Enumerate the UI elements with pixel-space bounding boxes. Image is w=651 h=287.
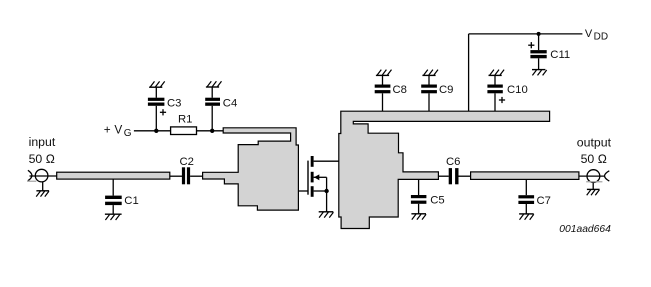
node output label [577, 136, 612, 166]
transistor Q1 drain lead [314, 160, 339, 162]
svg-text:C10: C10 [507, 84, 528, 96]
node VDD label [585, 28, 608, 42]
ground (C11) [532, 70, 547, 76]
node input label [29, 135, 56, 166]
capacitor C5 [411, 179, 445, 213]
svg-text:50 Ω: 50 Ω [581, 152, 608, 166]
svg-text:C3: C3 [167, 98, 181, 110]
svg-text:C6: C6 [446, 156, 460, 168]
svg-text:V: V [585, 28, 593, 40]
output connector J2 [579, 170, 609, 183]
wire VDD feed vertical [468, 34, 470, 111]
svg-text:C9: C9 [439, 84, 453, 96]
capacitor C6 [438, 156, 470, 184]
ground (C1) [105, 214, 122, 220]
ground (output connector) [587, 182, 600, 195]
svg-text:C11: C11 [550, 49, 570, 61]
wire VDD horizontal [469, 33, 583, 35]
ground (C5) [411, 214, 426, 220]
svg-text:+: + [104, 123, 111, 137]
node junction dot C4 [210, 129, 214, 133]
ground (C10, top) [489, 70, 505, 76]
capacitor C9 [421, 76, 453, 111]
ground (C4, top) [206, 81, 222, 87]
ground (source) [319, 212, 334, 218]
capacitor C11 (electrolytic) [528, 34, 570, 70]
svg-text:output: output [577, 136, 612, 150]
capacitor C1 [105, 179, 139, 214]
input matching microstrip network [203, 128, 299, 210]
capacitor C2 [170, 156, 203, 185]
node junction dot C3 [154, 129, 158, 133]
svg-text:G: G [124, 128, 132, 139]
input connector J1 [27, 169, 57, 182]
ground (C7) [519, 214, 534, 220]
svg-text:C8: C8 [393, 84, 407, 96]
wire VG to R1 [134, 130, 171, 132]
capacitor C10 (electrolytic) [487, 76, 527, 111]
ground (input connector) [36, 182, 49, 197]
svg-text:R1: R1 [178, 113, 192, 125]
svg-text:input: input [29, 135, 56, 149]
node +VG label [104, 123, 132, 140]
svg-text:C2: C2 [180, 156, 194, 168]
svg-text:50 Ω: 50 Ω [29, 152, 56, 166]
output matching microstrip network with VDD feed bar [339, 111, 550, 228]
svg-text:C4: C4 [223, 98, 237, 110]
capacitor C3 (electrolytic) [148, 88, 182, 131]
svg-text:C1: C1 [124, 195, 138, 207]
ground (C8, top) [376, 70, 392, 76]
ground (C3, top) [149, 81, 165, 87]
ground (C9, top) [422, 70, 438, 76]
wire source to ground [326, 191, 328, 212]
capacitor C4 [205, 87, 237, 130]
svg-text:C7: C7 [537, 195, 551, 207]
svg-text:001aad664: 001aad664 [559, 224, 611, 235]
transistor Q1 gate lead [298, 190, 308, 192]
transistor Q1 gate line [307, 161, 309, 195]
resistor R1 [171, 113, 197, 134]
node junction dot source [324, 189, 328, 193]
capacitor C8 [375, 76, 407, 111]
wire output microstrip line [471, 172, 579, 180]
capacitor C7 [518, 179, 551, 213]
svg-text:V: V [114, 123, 122, 137]
node junction dot C11 [537, 32, 541, 36]
wire R1 to gate strip [197, 130, 224, 132]
transistor Q1 body arrow [314, 174, 327, 191]
transistor Q1 channel segments [311, 156, 314, 197]
transistor Q1 source lead [314, 190, 327, 192]
wire input microstrip line [57, 172, 170, 179]
svg-text:C5: C5 [430, 195, 444, 207]
svg-text:DD: DD [594, 32, 608, 43]
